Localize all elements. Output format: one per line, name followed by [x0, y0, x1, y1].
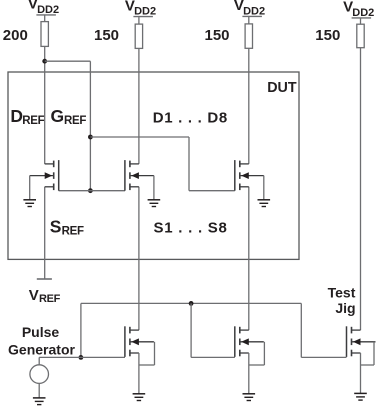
wire VDD2 to resistor 1	[44, 15, 46, 21]
transistor test jig switch	[347, 326, 376, 357]
wire bus drop to test jig gate	[301, 303, 346, 357]
node A (drain-gate tie)	[42, 59, 47, 64]
ground (device8 body)	[258, 200, 271, 207]
svg-text:S1 . . . S8: S1 . . . S8	[154, 219, 227, 236]
wire pulse generator to pulse line	[38, 357, 40, 364]
resistor R2 150	[135, 24, 142, 48]
power VDD2 (column 2)	[125, 0, 156, 18]
svg-text:DUT: DUT	[267, 80, 297, 96]
svg-text:REF: REF	[64, 115, 86, 127]
node label GREF	[51, 106, 87, 127]
wire bus drop left	[80, 303, 82, 357]
wire pulse line to jig1 gate	[39, 356, 125, 358]
transistor REF (diode-connected reference)	[30, 160, 59, 191]
node E (pulse node)	[79, 355, 84, 360]
node C (gate bus)	[88, 188, 93, 193]
resistor R3 150	[245, 24, 252, 48]
label Pulse Generator	[8, 324, 75, 358]
power VDD2 (column 3)	[234, 0, 265, 18]
wire VDD2 to resistor 2	[138, 17, 140, 24]
ground (jig2 source)	[243, 394, 256, 401]
wire device8 body to ground	[263, 176, 265, 200]
svg-text:S: S	[50, 217, 62, 237]
source pulse generator	[30, 365, 49, 384]
resistor R1 200	[41, 22, 48, 47]
transistor jig switch 2	[235, 326, 264, 357]
wire jig2 source to ground	[248, 353, 250, 394]
transistor DUT device 8	[235, 160, 264, 191]
wire REF body to ground	[29, 176, 31, 200]
ground (jig1 source)	[133, 394, 146, 401]
wire VDD2 to resistor 3	[248, 17, 250, 24]
node B (gate bus tap)	[88, 135, 93, 140]
wire jig switch 2 body-source loop	[249, 342, 265, 365]
node label VREF	[29, 287, 61, 305]
svg-text:150: 150	[94, 27, 119, 44]
ground (REF body)	[23, 200, 36, 207]
wire S8 column	[248, 187, 250, 330]
wire device1 body to ground	[153, 176, 155, 200]
wire R3 to D8 drain	[248, 48, 250, 164]
svg-text:D1 . . . D8: D1 . . . D8	[153, 109, 228, 126]
transistor DUT device 1	[125, 160, 154, 191]
ground (test jig source)	[354, 393, 367, 400]
wire bus drop to jig2 gate	[191, 303, 235, 357]
node D (bus tap)	[189, 301, 194, 306]
wire R2 to D1 drain	[138, 48, 140, 163]
ground (device1 body)	[148, 200, 161, 207]
wire jig switch 1 body-source loop	[139, 342, 155, 365]
wire gate feed to DUT device	[90, 137, 234, 191]
node label SREF	[50, 217, 84, 238]
wire test jig source to ground	[360, 353, 362, 393]
svg-text:D: D	[10, 106, 23, 126]
resistor R4 150	[357, 24, 364, 48]
node label DREF	[10, 106, 44, 127]
wire R4 to test jig drain	[360, 48, 362, 330]
svg-text:Test: Test	[328, 285, 356, 301]
svg-text:Generator: Generator	[8, 342, 75, 358]
svg-text:Jig: Jig	[335, 300, 355, 316]
label Test Jig	[328, 285, 356, 317]
wire VDD2 to resistor 4	[360, 18, 362, 24]
svg-text:G: G	[51, 106, 65, 126]
wire jig1 source to ground	[138, 353, 140, 394]
terminal VREF bar	[37, 278, 52, 280]
wire upper gate bus	[81, 302, 301, 304]
svg-text:V: V	[29, 287, 39, 304]
power VDD2 (column 1)	[28, 0, 59, 16]
wire pulse generator to ground	[38, 383, 40, 398]
svg-text:200: 200	[3, 27, 28, 44]
wire S1 column	[138, 187, 140, 330]
wire gate bus REF pair	[59, 190, 125, 192]
ground (pulse generator)	[33, 398, 46, 405]
wire SREF to VREF terminal	[44, 187, 46, 279]
svg-text:Pulse: Pulse	[22, 324, 60, 340]
wire test jig switch body-source loop	[361, 342, 375, 365]
wire node A to GREF column	[45, 60, 91, 62]
DUT box	[8, 72, 299, 259]
power VDD2 (column 4)	[343, 0, 374, 19]
svg-text:150: 150	[315, 27, 340, 44]
svg-text:REF: REF	[22, 115, 44, 127]
svg-text:REF: REF	[39, 293, 61, 305]
wire GREF vertical	[89, 61, 91, 191]
wire R1 to DREF drain	[44, 46, 46, 163]
svg-text:REF: REF	[62, 226, 84, 238]
svg-text:150: 150	[205, 27, 230, 44]
transistor jig switch 1	[125, 326, 154, 357]
